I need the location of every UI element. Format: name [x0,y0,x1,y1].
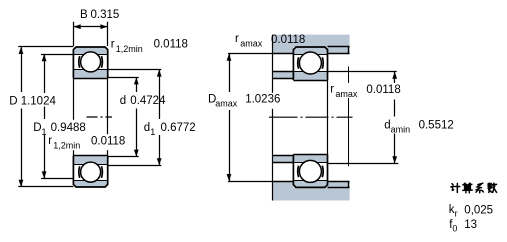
left bearing ring shoulder lines [73,55,107,181]
right bearing outer ring (bottom) [293,180,327,187]
right bearing outline [293,47,327,187]
label B 0.315 [80,9,119,21]
svg-text:D: D [9,95,17,107]
svg-text:0.9488: 0.9488 [51,122,86,134]
housing section (top) [272,35,349,54]
svg-text:0.0118: 0.0118 [91,136,125,148]
svg-text:1,2min: 1,2min [53,141,80,151]
shaft shoulder (top) [272,72,293,79]
right bearing inner ring (top) [293,72,327,80]
right bearing ball (bottom) [299,160,321,182]
dimension d line with arrows [134,77,139,156]
svg-text:13: 13 [464,219,477,231]
svg-text:0,025: 0,025 [464,204,493,216]
label damin 0.5512 [383,118,454,135]
right bearing bottom half white body [293,154,327,187]
svg-text:0.6772: 0.6772 [161,122,196,134]
svg-text:r: r [235,33,239,45]
shaft abutment extension line [348,67,350,167]
label r1,2min 0.0118 (bottom) [46,134,125,151]
label d 0.4724 [117,93,166,107]
dimension D1 leader lines [41,55,73,179]
label D1 0.9488 [31,120,99,137]
right bearing top half white body [293,47,327,80]
left bearing ball (bottom) [81,162,101,182]
left bearing cage (top) [79,56,103,68]
left bearing ball (top) [81,52,101,72]
left view centerline [87,116,113,118]
svg-text:0.0118: 0.0118 [366,84,400,96]
housing edge lines [272,47,349,188]
label D 1.1024 [7,93,59,107]
label d1 0.6772 [142,120,196,137]
svg-text:amax: amax [240,39,263,49]
dimension d leader lines [108,78,139,157]
svg-text:1: 1 [42,127,47,137]
svg-text:amax: amax [215,99,238,109]
svg-text:r: r [48,135,52,147]
svg-text:0.315: 0.315 [91,9,120,21]
svg-text:0: 0 [452,223,457,233]
right bearing ball (top) [299,52,321,74]
label ramax 0.0118 (top) [235,33,305,48]
housing / shaft left face line [272,35,274,201]
left bearing outline [73,47,107,187]
shaft shoulder (bottom) [272,156,293,163]
right view centerline [269,116,353,118]
dimension D line with arrows [19,47,24,187]
svg-text:r: r [111,38,115,50]
dimension D1 line with arrows [42,54,47,178]
right bearing outer ring (top) [293,47,327,54]
svg-text:0.0118: 0.0118 [154,38,188,50]
dimension d1 leader lines [108,70,162,166]
left bearing outer ring (top) [73,47,107,54]
housing section (bottom) [272,181,349,201]
left bearing inner ring (top) [73,70,107,79]
dimension d1 line with arrows [157,70,162,166]
dimension D leader lines (left view) [18,47,73,187]
svg-text:D: D [33,122,41,134]
svg-text:1.1024: 1.1024 [21,95,57,107]
svg-text:amin: amin [391,124,411,134]
dimension B extension lines [74,22,108,46]
svg-text:1,2min: 1,2min [116,44,143,54]
dimension da line with arrows [392,72,397,163]
svg-text:r: r [330,84,334,96]
right bearing cage (top) [298,57,323,69]
svg-text:r: r [455,209,458,219]
label ramax 0.0118 (right) [329,83,403,99]
label Damax 1.0236 [206,93,282,109]
svg-text:1: 1 [150,127,155,137]
right bearing cage (bottom) [298,166,323,178]
label r1,2min 0.0118 (top) [111,38,188,54]
dimension ra/da leader lines [328,72,399,164]
dimension Damax leader lines [228,54,272,182]
svg-text:0.4724: 0.4724 [130,95,166,107]
svg-text:d: d [120,95,126,107]
dimension Damax line with arrows [227,54,232,181]
right bearing inner ring (bottom) [293,154,327,162]
dimension B line with arrows [73,24,107,29]
svg-text:1.0236: 1.0236 [245,94,280,106]
svg-text:0.5512: 0.5512 [419,120,454,132]
label kr 0,025 [449,204,493,218]
right bearing ring shoulder lines [293,55,327,181]
label jisuanxishu (calculation factors, hand-drawn CJK) [451,183,497,193]
left bearing cage (bottom) [79,166,103,178]
left bearing outer ring (bottom) [73,180,107,187]
svg-text:amax: amax [335,89,358,99]
left bearing top half white body [73,47,107,78]
svg-text:0.0118: 0.0118 [271,34,305,46]
svg-text:B: B [80,9,88,21]
label f0 13 [449,219,477,233]
left bearing inner ring (bottom) [73,156,107,165]
left bearing bottom half white body [73,156,107,187]
